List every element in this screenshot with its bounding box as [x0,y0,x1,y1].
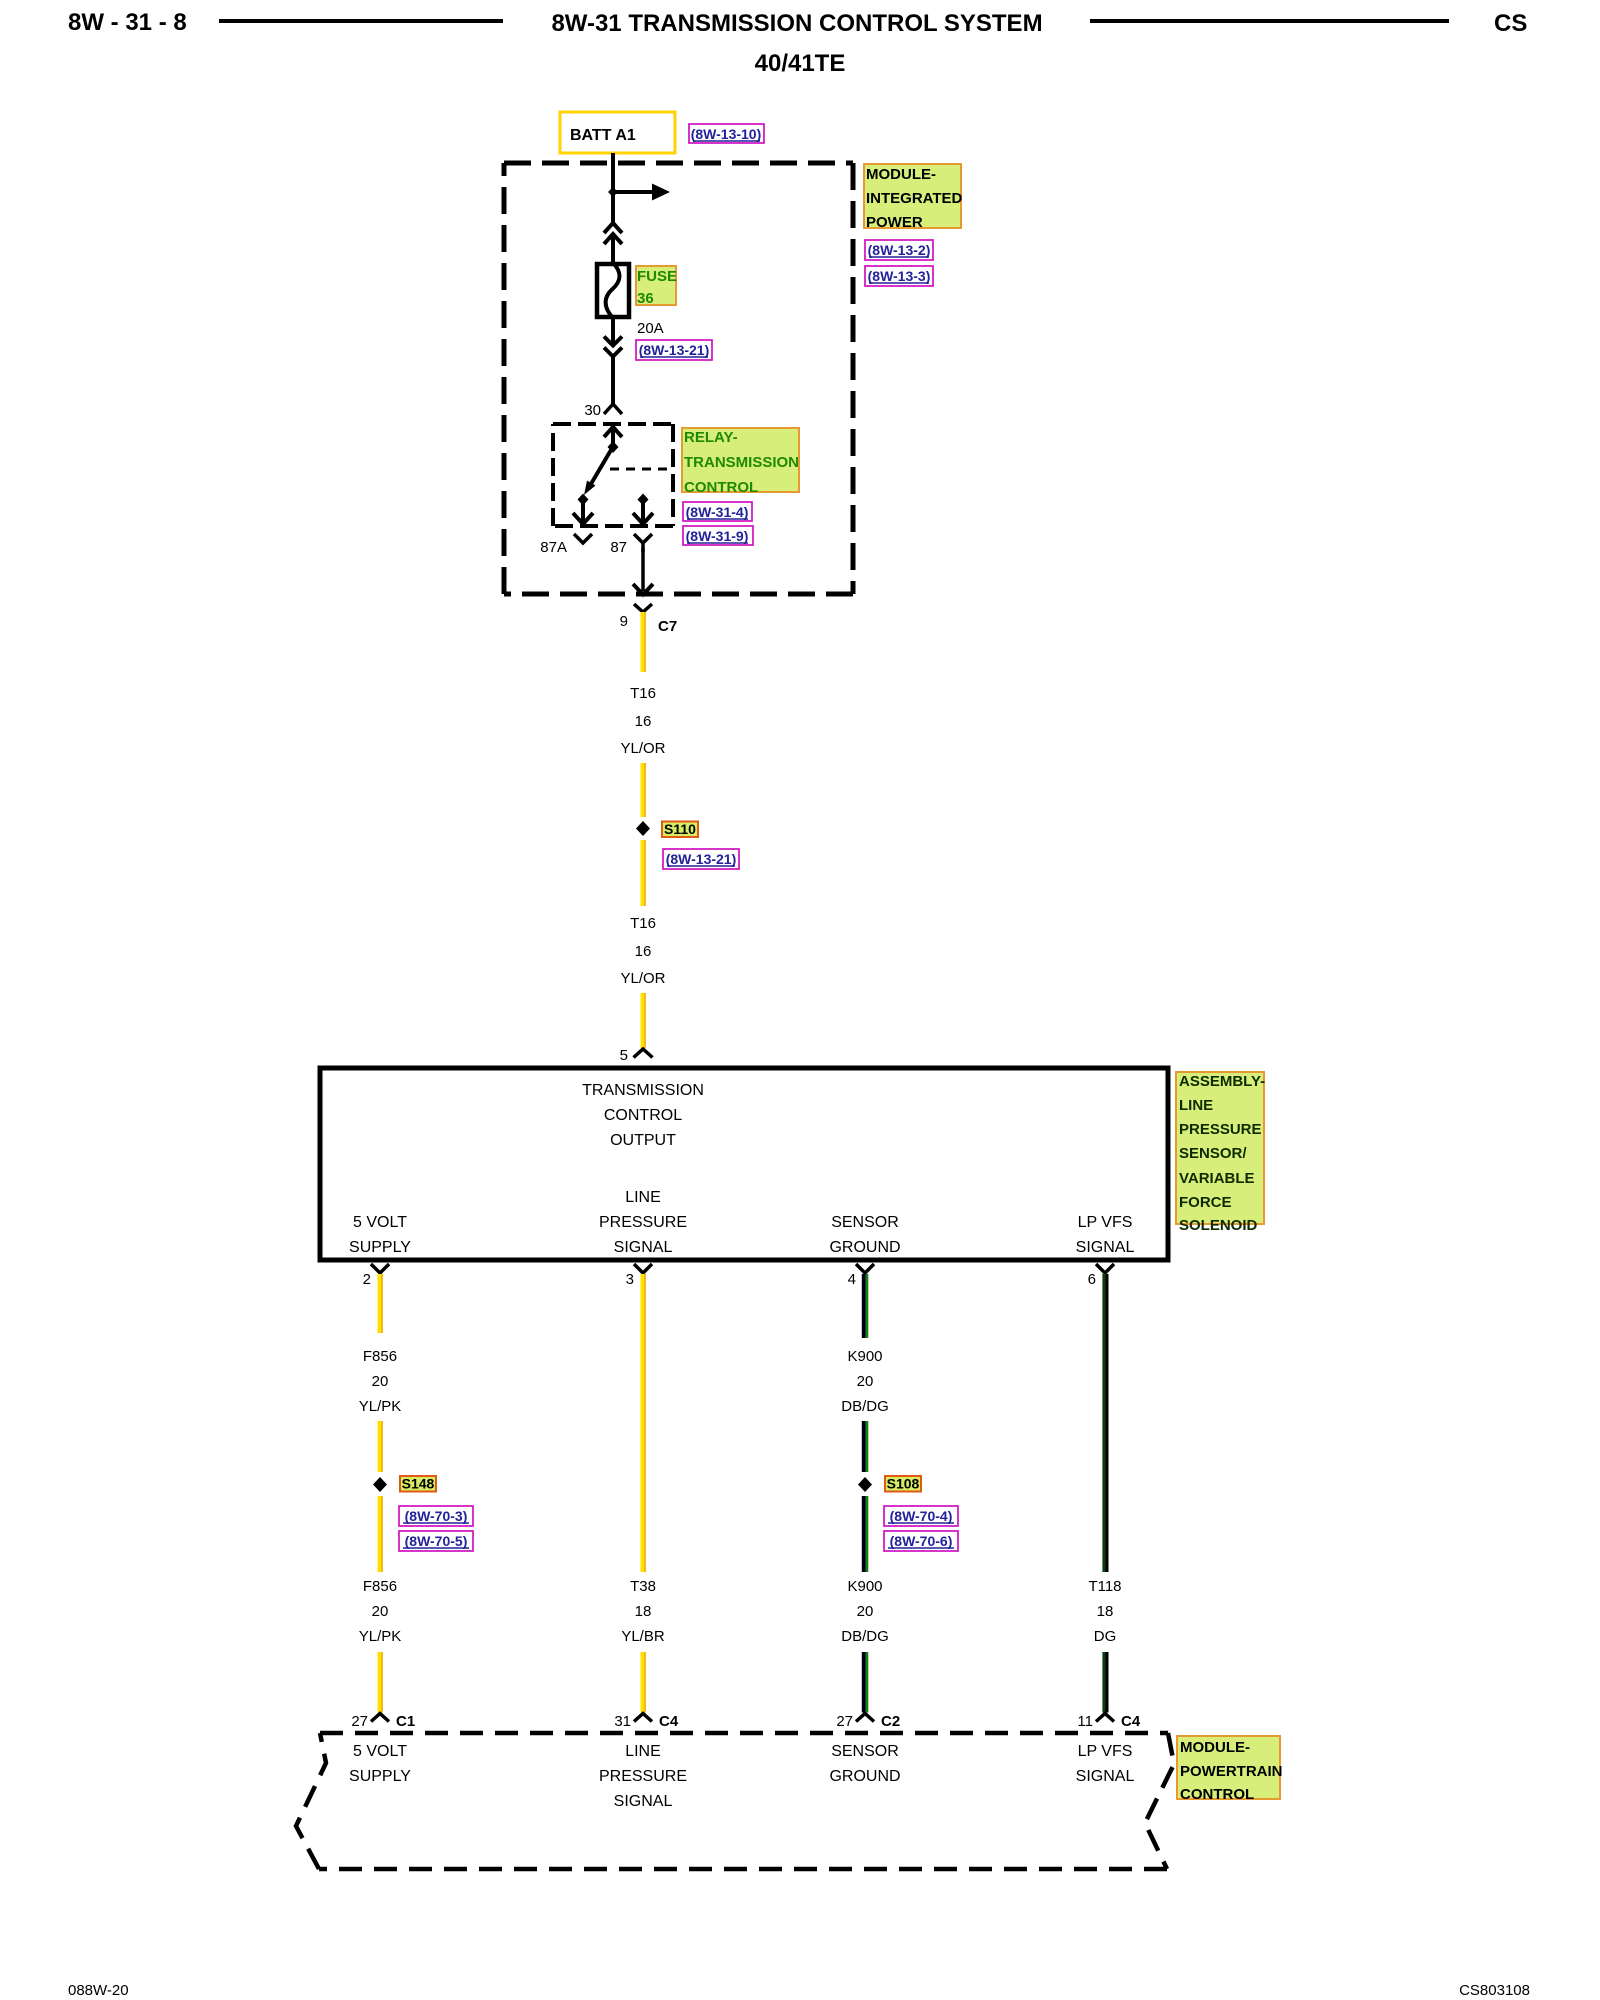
svg-text:C7: C7 [658,618,677,635]
svg-text:YL/BR: YL/BR [621,1628,665,1645]
splice S110 label [662,822,698,838]
svg-text:RELAY-: RELAY- [684,429,738,446]
svg-text:YL/PK: YL/PK [359,1628,402,1645]
svg-text:8W-31 TRANSMISSION CONTROL SYS: 8W-31 TRANSMISSION CONTROL SYSTEM [551,10,1042,37]
link (8W-70-4) [884,1506,958,1526]
link (8W-13-21) [636,340,712,360]
splice S148 label [400,1476,436,1492]
svg-text:2: 2 [363,1271,371,1288]
header rule left [219,19,503,23]
svg-text:SIGNAL: SIGNAL [1076,1768,1135,1785]
pin 30 connector chevron [604,404,622,414]
svg-text:18: 18 [1097,1603,1114,1620]
link (8W-13-2) [865,240,933,260]
assembly-line pressure sensor label green box [1176,1072,1264,1224]
battery feed box BATT A1 [560,112,675,153]
link (8W-13-21) [663,849,739,869]
link (8W-13-3) [865,266,933,286]
svg-text:(8W-70-4): (8W-70-4) [890,1508,953,1524]
svg-text:6: 6 [1088,1271,1096,1288]
svg-text:C2: C2 [881,1713,900,1730]
module-integrated power dashed box [504,163,853,594]
relay 87A node diamond [578,494,589,506]
wire T16 yellow lower [641,840,646,906]
svg-text:YL/OR: YL/OR [620,970,665,987]
svg-text:T16: T16 [630,915,656,932]
column 4: wire T118 dark green [1104,1274,1107,1572]
svg-text:40/41TE: 40/41TE [755,50,846,77]
link (8W-70-6) [884,1531,958,1551]
header rule right [1090,19,1449,23]
relay label green box [682,428,799,492]
module-powertrain control dashed outline [296,1733,1174,1869]
svg-text:20A: 20A [637,320,664,337]
svg-text:INTEGRATED: INTEGRATED [866,190,963,207]
svg-text:POWER: POWER [866,214,923,231]
svg-text:5 VOLT: 5 VOLT [353,1214,407,1231]
relay switch blade [588,450,611,489]
module-powertrain control label green box [1177,1736,1280,1799]
svg-text:S108: S108 [887,1476,920,1492]
svg-text:5 VOLT: 5 VOLT [353,1743,407,1760]
transmission control output box [320,1068,1168,1260]
svg-text:DB/DG: DB/DG [841,1398,889,1415]
svg-text:F856: F856 [363,1348,397,1365]
svg-text:PRESSURE: PRESSURE [599,1768,687,1785]
svg-text:CONTROL: CONTROL [1180,1786,1254,1803]
svg-text:CONTROL: CONTROL [604,1107,682,1124]
svg-text:SENSOR: SENSOR [831,1743,899,1760]
svg-text:SENSOR/: SENSOR/ [1179,1145,1247,1162]
svg-text:(8W-13-2): (8W-13-2) [868,242,931,258]
wire 87 to module edge with arrow [641,548,645,591]
svg-text:T16: T16 [630,685,656,702]
svg-text:F856: F856 [363,1578,397,1595]
wire from BATT A1 into module [611,153,615,224]
svg-text:LP VFS: LP VFS [1078,1214,1133,1231]
svg-text:SIGNAL: SIGNAL [614,1239,673,1256]
svg-text:S148: S148 [402,1476,435,1492]
svg-text:ASSEMBLY-: ASSEMBLY- [1179,1073,1265,1090]
svg-text:30: 30 [584,402,601,419]
svg-text:CONTROL: CONTROL [684,479,758,496]
svg-text:C4: C4 [659,1713,679,1730]
column 3: wire K900 dark blue/dark green [864,1274,867,1338]
svg-text:TRANSMISSION: TRANSMISSION [684,454,799,471]
relay pin30 arrow up [604,427,622,437]
svg-text:BATT A1: BATT A1 [570,127,636,144]
svg-text:088W-20: 088W-20 [68,1982,129,1999]
relay-transmission control dashed box [553,424,673,526]
svg-text:31: 31 [614,1713,631,1730]
svg-text:(8W-31-4): (8W-31-4) [686,504,749,520]
splice S108 diamond [858,1477,872,1492]
module-integrated power label green box [864,164,961,228]
svg-text:PRESSURE: PRESSURE [599,1214,687,1231]
wire T16 into pin 5 [641,993,646,1048]
wire K900 below splice S108 [864,1496,867,1572]
svg-text:K900: K900 [847,1348,882,1365]
svg-text:SIGNAL: SIGNAL [1076,1239,1135,1256]
svg-text:LINE: LINE [625,1189,661,1206]
svg-text:SUPPLY: SUPPLY [349,1768,411,1785]
splice S148 diamond [373,1477,387,1492]
svg-text:20: 20 [372,1373,389,1390]
svg-text:PRESSURE: PRESSURE [1179,1121,1262,1138]
svg-text:FORCE: FORCE [1179,1194,1232,1211]
link (8W-31-4) [683,502,752,521]
svg-text:S110: S110 [664,821,696,837]
wire F856 below splice S148 [378,1496,383,1572]
column 1: wire F856 yellow [378,1274,383,1333]
svg-text:27: 27 [836,1713,853,1730]
svg-text:LP VFS: LP VFS [1078,1743,1133,1760]
svg-text:SENSOR: SENSOR [831,1214,899,1231]
svg-text:(8W-70-5): (8W-70-5) [405,1533,468,1549]
svg-text:GROUND: GROUND [829,1239,900,1256]
svg-text:4: 4 [848,1271,856,1288]
svg-text:16: 16 [635,713,652,730]
svg-text:16: 16 [635,943,652,960]
relay 87 node diamond [638,494,649,506]
svg-text:CS803108: CS803108 [1459,1982,1530,1999]
svg-text:C4: C4 [1121,1713,1141,1730]
svg-text:27: 27 [351,1713,368,1730]
svg-text:POWERTRAIN: POWERTRAIN [1180,1763,1283,1780]
svg-text:LINE: LINE [625,1743,661,1760]
splice S108 label [885,1476,921,1492]
fuse 36 [597,264,629,317]
svg-text:C1: C1 [396,1713,415,1730]
svg-text:MODULE-: MODULE- [1180,1739,1250,1756]
svg-text:GROUND: GROUND [829,1768,900,1785]
svg-text:20: 20 [857,1373,874,1390]
junction node [608,187,618,197]
relay 87A lead with arrow [581,502,585,521]
wire T16 yellow upper [641,612,646,672]
current direction double chevron up [604,223,622,233]
svg-text:87: 87 [610,539,627,556]
svg-text:8W - 31 - 8: 8W - 31 - 8 [68,9,187,36]
svg-text:3: 3 [626,1271,634,1288]
current direction double chevron down [604,337,622,346]
svg-text:(8W-13-21): (8W-13-21) [666,851,737,867]
wire fuse to relay pin 30 [611,317,615,345]
svg-text:20: 20 [857,1603,874,1620]
svg-text:TRANSMISSION: TRANSMISSION [582,1082,704,1099]
svg-text:87A: 87A [540,539,567,556]
svg-text:9: 9 [620,613,628,630]
relay 87 lead with arrow [641,502,645,521]
relay common node diamond [608,441,619,453]
link (8W-13-10) [689,124,764,143]
svg-text:(8W-70-6): (8W-70-6) [890,1533,953,1549]
svg-text:SUPPLY: SUPPLY [349,1239,411,1256]
svg-text:K900: K900 [847,1578,882,1595]
svg-text:(8W-13-3): (8W-13-3) [868,268,931,284]
link (8W-70-5) [399,1531,473,1551]
splice S110 diamond [636,821,650,836]
svg-text:VARIABLE: VARIABLE [1179,1170,1255,1187]
fuse label green box [636,266,676,305]
svg-text:36: 36 [637,290,654,307]
svg-text:(8W-13-10): (8W-13-10) [691,126,762,142]
link (8W-70-3) [399,1506,473,1526]
svg-text:(8W-70-3): (8W-70-3) [405,1508,468,1524]
svg-text:DB/DG: DB/DG [841,1628,889,1645]
relay coil dashed control line [610,468,672,471]
svg-text:MODULE-: MODULE- [866,166,936,183]
svg-text:SIGNAL: SIGNAL [614,1793,673,1810]
svg-text:11: 11 [1077,1713,1093,1730]
svg-text:DG: DG [1094,1628,1117,1645]
svg-text:LINE: LINE [1179,1097,1213,1114]
column 2: wire T38 yellow [641,1274,646,1572]
svg-text:5: 5 [620,1047,628,1064]
svg-text:YL/OR: YL/OR [620,740,665,757]
svg-text:T118: T118 [1088,1578,1121,1595]
svg-text:OUTPUT: OUTPUT [610,1132,676,1149]
svg-text:YL/PK: YL/PK [359,1398,402,1415]
wire T16 above splice S110 [641,763,646,817]
svg-text:(8W-31-9): (8W-31-9) [686,528,749,544]
branch arrow right [613,190,653,194]
svg-text:(8W-13-21): (8W-13-21) [639,342,710,358]
svg-text:T38: T38 [630,1578,656,1595]
svg-text:FUSE: FUSE [637,268,677,285]
svg-text:20: 20 [372,1603,389,1620]
link (8W-31-9) [683,526,753,545]
svg-text:18: 18 [635,1603,652,1620]
svg-text:CS: CS [1494,10,1527,37]
svg-text:SOLENOID: SOLENOID [1179,1217,1258,1234]
